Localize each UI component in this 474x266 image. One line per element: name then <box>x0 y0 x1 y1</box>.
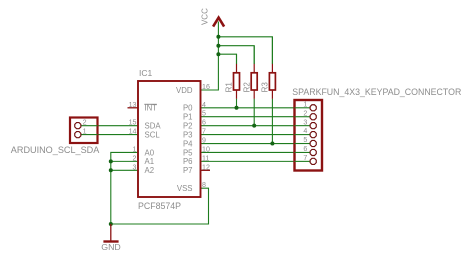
svg-text:14: 14 <box>129 128 137 136</box>
pin 13 INT (unconnected stub) <box>128 107 139 109</box>
junction dot A1/rail <box>109 159 113 163</box>
wire P2 net to keypad pin3 <box>201 125 311 127</box>
junction dot VCC/R1 <box>216 52 220 56</box>
connector JP1 ARDUINO_SCL_SDA <box>11 118 100 156</box>
svg-text:2: 2 <box>83 118 87 126</box>
wire P5 net to keypad pin6 <box>201 151 311 153</box>
svg-text:GND: GND <box>101 242 121 252</box>
pad pin2 <box>78 125 98 127</box>
svg-text:IC1: IC1 <box>139 68 153 78</box>
resistor R2 <box>242 46 257 126</box>
wire P6 net to keypad pin7 <box>201 160 311 162</box>
pad 6 <box>310 149 316 155</box>
junction dot GND rail <box>109 222 113 226</box>
svg-text:SPARKFUN_4X3_KEYPAD_CONNECTOR: SPARKFUN_4X3_KEYPAD_CONNECTOR <box>292 87 461 97</box>
wire P1 net to keypad pin2 <box>201 116 311 118</box>
svg-text:R2: R2 <box>242 82 251 93</box>
svg-text:1: 1 <box>83 127 87 135</box>
svg-text:12: 12 <box>202 163 210 171</box>
op IC U1: PCF8574P <box>128 68 211 211</box>
pad 4 <box>310 132 316 138</box>
svg-text:10: 10 <box>202 145 210 153</box>
svg-text:9: 9 <box>202 137 206 145</box>
keypad wires inside box <box>295 107 311 109</box>
svg-text:P5: P5 <box>183 148 193 157</box>
junction dot R1/P0 <box>235 106 239 110</box>
svg-text:ARDUINO_SCL_SDA: ARDUINO_SCL_SDA <box>11 145 100 155</box>
svg-text:5: 5 <box>303 136 307 144</box>
wire A1 net <box>111 160 138 162</box>
svg-text:4: 4 <box>202 101 206 109</box>
svg-text:A1: A1 <box>145 157 155 166</box>
supply symbol VCC <box>201 8 224 27</box>
svg-text:15: 15 <box>129 119 137 127</box>
svg-text:7: 7 <box>202 128 206 136</box>
pad 5 <box>310 140 316 146</box>
wire P0 net to keypad pin1 <box>201 107 311 109</box>
svg-text:P4: P4 <box>183 139 193 148</box>
junction dot VCC/R2 <box>216 44 220 48</box>
junction dot R2/P2 <box>252 124 256 128</box>
svg-text:11: 11 <box>202 154 209 162</box>
svg-text:A0: A0 <box>145 148 155 157</box>
wire SCL net (connector pin1 to IC pin14) <box>81 134 138 136</box>
svg-text:2: 2 <box>303 109 307 117</box>
wire VCC vertical net <box>201 22 219 91</box>
svg-text:INT: INT <box>145 104 158 113</box>
pad 7 <box>310 158 316 164</box>
svg-text:8: 8 <box>202 181 206 189</box>
resistor R1 <box>225 54 240 108</box>
wire VSS net (IC pin8 to GND rail) <box>111 188 209 224</box>
ground symbol GND <box>101 224 121 252</box>
pad 2 <box>310 114 316 120</box>
pad pin1 <box>78 134 98 136</box>
svg-text:VCC: VCC <box>201 8 210 25</box>
svg-text:6: 6 <box>202 119 206 127</box>
svg-text:PCF8574P: PCF8574P <box>138 201 181 211</box>
svg-text:16: 16 <box>202 83 210 91</box>
wire A0 net to GND rail <box>111 152 138 224</box>
wire VCC branch to R1 <box>218 54 236 64</box>
svg-text:3: 3 <box>133 163 137 171</box>
svg-text:13: 13 <box>129 101 137 109</box>
wire P3 net to keypad pin4 <box>201 134 311 136</box>
svg-text:R1: R1 <box>225 82 234 93</box>
svg-text:4: 4 <box>303 127 307 135</box>
svg-text:VDD: VDD <box>176 86 193 95</box>
pin 12 P7 (unconnected stub) <box>201 169 211 171</box>
svg-text:R3: R3 <box>261 82 270 93</box>
wire SDA net (connector pin2 to IC pin15) <box>81 125 138 127</box>
svg-text:SCL: SCL <box>145 130 161 139</box>
svg-text:P0: P0 <box>183 104 193 113</box>
connector SPARKFUN_4X3_KEYPAD_CONNECTOR <box>292 87 461 171</box>
wire P4 net to keypad pin5 <box>201 143 311 145</box>
svg-text:2: 2 <box>133 154 137 162</box>
svg-text:SDA: SDA <box>145 122 162 131</box>
pad 1 <box>310 105 316 111</box>
svg-text:1: 1 <box>303 100 307 108</box>
svg-text:6: 6 <box>303 145 307 153</box>
svg-text:1: 1 <box>133 145 137 153</box>
wire A2 net <box>111 169 138 171</box>
junction dot R3/P4 <box>270 142 274 146</box>
svg-text:P6: P6 <box>183 157 193 166</box>
svg-text:7: 7 <box>303 154 307 162</box>
svg-text:A2: A2 <box>145 166 155 175</box>
svg-text:VSS: VSS <box>177 184 193 193</box>
svg-text:P3: P3 <box>183 130 193 139</box>
wire VCC branch to R3 <box>218 37 272 64</box>
svg-text:5: 5 <box>202 110 206 118</box>
svg-text:P7: P7 <box>183 166 193 175</box>
svg-text:P1: P1 <box>183 113 193 122</box>
pad 3 <box>310 123 316 129</box>
wire VCC branch to R2 <box>218 46 254 64</box>
svg-text:3: 3 <box>303 118 307 126</box>
junction dot VCC/R3 <box>216 35 220 39</box>
resistor R3 <box>261 37 276 144</box>
junction dot A2/rail <box>109 168 113 172</box>
svg-text:P2: P2 <box>183 122 193 131</box>
